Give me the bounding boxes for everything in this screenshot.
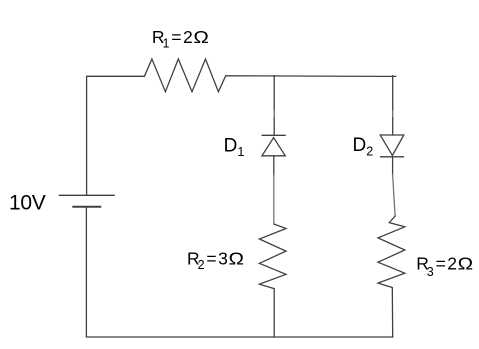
svg-text:R1=2Ω: R1=2Ω [152, 27, 209, 50]
svg-text:D1: D1 [224, 135, 245, 159]
svg-text:R3=2Ω: R3=2Ω [416, 254, 473, 279]
svg-text:D2: D2 [353, 135, 374, 159]
svg-text:R2=3Ω: R2=3Ω [187, 249, 244, 272]
svg-text:10V: 10V [9, 191, 46, 214]
